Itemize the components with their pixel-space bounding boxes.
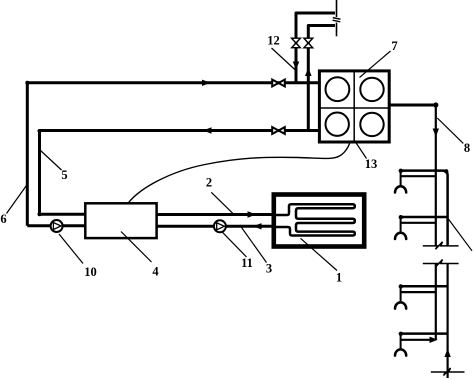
valve on right external pipe bbox=[304, 38, 313, 48]
svg-text:13: 13 bbox=[365, 157, 378, 171]
node dot radiator C bbox=[399, 284, 403, 288]
valve on left external pipe bbox=[292, 38, 301, 48]
leader 2 bbox=[211, 192, 233, 213]
radiator D top line bbox=[401, 332, 448, 335]
wire supply riser upper section bbox=[435, 105, 437, 246]
radiator C top line bbox=[401, 285, 448, 288]
valve on supply pipe (bowtie) bbox=[272, 80, 285, 87]
leader 12 bbox=[272, 48, 295, 70]
wire supply riser lower section bbox=[435, 264, 437, 340]
radiator B drop and emitter arch bbox=[400, 217, 402, 233]
divider vertical bbox=[353, 71, 355, 142]
break symbol lower on risers bbox=[423, 260, 459, 268]
wire left external pipe with elbow bbox=[296, 13, 335, 83]
leader 10 bbox=[59, 234, 83, 264]
wire outer supply loop (left vertical + top horizontal to unit 7) bbox=[27, 83, 320, 226]
radiator C bottom line bbox=[401, 291, 436, 293]
heat exchanger box 4 bbox=[85, 203, 156, 238]
wire outer bottom pipe through pump 10 bbox=[27, 224, 85, 227]
arrow left on lower middle pipe bbox=[253, 223, 262, 229]
pump 10 bbox=[51, 220, 63, 232]
divider horizontal bbox=[319, 107, 389, 109]
svg-text:12: 12 bbox=[267, 34, 280, 48]
svg-text:3: 3 bbox=[266, 262, 272, 276]
radiator A drop and emitter arch bbox=[400, 171, 402, 187]
leader 7 bbox=[360, 51, 391, 78]
arrow up on return riser bottom bbox=[444, 349, 450, 357]
node corner dot top-left bbox=[25, 81, 29, 85]
arrow down on supply riser bbox=[433, 129, 439, 137]
radiator D drop and emitter arch bbox=[400, 334, 402, 350]
wire pipe box4 to coil lower bbox=[157, 225, 273, 228]
leader unlabeled diagonal bbox=[448, 219, 472, 251]
radiator A bottom line bbox=[401, 175, 436, 177]
node corner dot inner top bbox=[38, 129, 42, 133]
svg-text:6: 6 bbox=[0, 212, 6, 226]
radiator D bottom line with arrow bbox=[401, 339, 431, 341]
leader 8 bbox=[437, 118, 463, 143]
coil serpentine inside box 1 bbox=[276, 204, 355, 235]
radiator B top line bbox=[401, 216, 448, 219]
leader 1 bbox=[301, 238, 338, 270]
arrow up on right external riser bbox=[305, 68, 312, 76]
arrow right on upper middle pipe bbox=[248, 211, 257, 217]
water heater unit 7 bbox=[319, 71, 389, 142]
wire pipe box4 to coil upper bbox=[157, 213, 273, 216]
leader 4 bbox=[121, 232, 152, 263]
radiator A top line with elbow to return riser bbox=[401, 171, 448, 246]
leader 5 bbox=[41, 151, 62, 171]
break symbol upper on risers bbox=[423, 242, 459, 250]
wire right external pipe riser bbox=[308, 26, 335, 131]
svg-text:10: 10 bbox=[84, 265, 97, 279]
wire inner return loop (top pipe + left vertical + bottom pipe) bbox=[40, 131, 321, 215]
leader 6 bbox=[7, 185, 27, 214]
wire unit 7 outlet to right bbox=[389, 104, 436, 107]
node junction dot bbox=[433, 102, 438, 107]
node dot radiator A bbox=[399, 169, 403, 173]
leader 3 bbox=[240, 225, 267, 263]
valve on return pipe (bowtie) bbox=[272, 127, 285, 134]
node dot radiator A elbow bbox=[444, 169, 448, 173]
arrow right on supply pipe bbox=[202, 80, 211, 86]
burner circle top-right bbox=[360, 78, 383, 101]
wire return riser lower section bbox=[447, 264, 449, 379]
svg-text:8: 8 bbox=[464, 141, 470, 155]
arrow left on return pipe bbox=[203, 127, 212, 133]
node dot radiator B bbox=[399, 215, 403, 219]
burner circle top-left bbox=[326, 77, 350, 101]
svg-text:5: 5 bbox=[61, 168, 67, 182]
radiator B bottom line bbox=[401, 222, 436, 224]
burner circle bottom-left bbox=[326, 113, 349, 136]
svg-text:7: 7 bbox=[391, 39, 397, 53]
pipe curve from box 4 to unit 7 bottom bbox=[128, 132, 352, 204]
pump 11 bbox=[214, 220, 226, 232]
wire external vertical stub top bbox=[336, 0, 338, 17]
burner circle bottom-right bbox=[360, 113, 383, 136]
svg-text:1: 1 bbox=[336, 271, 342, 285]
svg-text:2: 2 bbox=[206, 176, 212, 190]
node stub into unit 7 bottom bbox=[352, 132, 356, 141]
svg-text:11: 11 bbox=[241, 256, 253, 270]
svg-text:4: 4 bbox=[152, 265, 159, 279]
break symbol on external stub bbox=[333, 18, 341, 22]
node dot radiator D bbox=[399, 332, 403, 336]
arrow right on radiator D bottom line bbox=[430, 337, 438, 343]
leader 11 bbox=[222, 232, 247, 257]
wire external vertical stub lower bbox=[336, 23, 338, 37]
radiator C drop and emitter arch bbox=[400, 286, 402, 303]
coil box 1 bbox=[274, 195, 364, 247]
arrow down on left external pipe bbox=[293, 62, 300, 70]
break symbol bottom end bbox=[431, 368, 465, 376]
leader 13 bbox=[354, 140, 367, 159]
node corner dot inner bottom bbox=[38, 212, 42, 216]
